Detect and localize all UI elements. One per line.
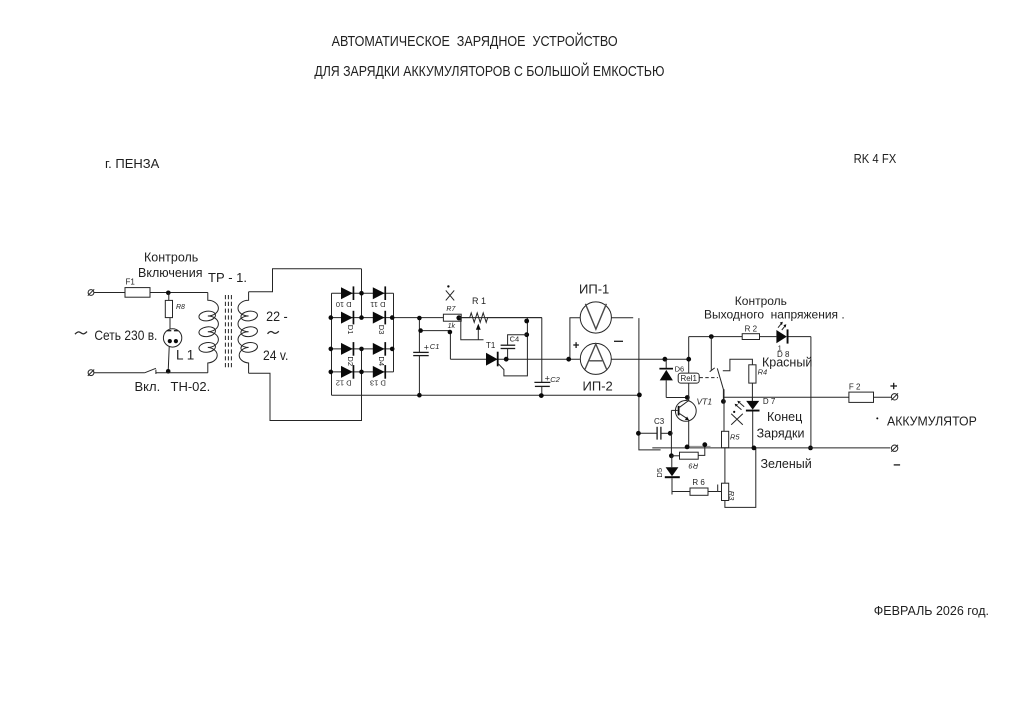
svg-text:ДЛЯ ЗАРЯДКИ АККУМУЛЯТОРОВ С БО: ДЛЯ ЗАРЯДКИ АККУМУЛЯТОРОВ С БОЛЬШОЙ ЕМКО… — [314, 62, 664, 80]
diode D11 — [373, 287, 385, 299]
relay contact NC step to R4 — [723, 359, 753, 370]
lamp cross above R7 — [446, 290, 454, 300]
svg-text:D1: D1 — [346, 325, 355, 335]
svg-text:R3: R3 — [727, 491, 736, 501]
wire V left + vertical to A rail — [570, 318, 580, 359]
node bridge row4 mid — [359, 370, 364, 375]
svg-text:R7: R7 — [446, 306, 456, 313]
capacitor C4 — [508, 335, 528, 346]
svg-text:ИП-1: ИП-1 — [579, 282, 609, 297]
node bridge row2 right / + output — [390, 315, 395, 320]
wire — [94, 292, 125, 294]
capacitor C1 — [418, 318, 420, 353]
lamp cross near D7 — [731, 414, 743, 425]
svg-text:R9: R9 — [688, 461, 698, 470]
diode D13 — [373, 366, 385, 378]
svg-text:C4: C4 — [510, 334, 520, 343]
wire output plus line — [723, 396, 849, 398]
svg-text:D 13: D 13 — [370, 379, 386, 388]
svg-text:Контроль: Контроль — [144, 251, 198, 265]
svg-text:АВТОМАТИЧЕСКОЕ ЗАРЯДНОЕ УСТР: АВТОМАТИЧЕСКОЕ ЗАРЯДНОЕ УСТРОЙСТВО — [332, 32, 618, 50]
svg-text:АККУМУЛЯТОР: АККУМУЛЯТОР — [887, 414, 977, 428]
node bridge row1 mid — [359, 291, 364, 296]
wire bridge mid vertical top — [361, 269, 363, 318]
svg-text:VT1: VT1 — [697, 397, 713, 407]
svg-text:ФЕВРАЛЬ 2026 год.: ФЕВРАЛЬ 2026 год. — [874, 604, 989, 618]
wire row4 — [332, 371, 394, 373]
transformer secondary winding — [238, 292, 249, 374]
neon lamp L1 — [163, 329, 181, 347]
svg-text:D5: D5 — [655, 468, 664, 478]
resistor R8 — [168, 293, 170, 301]
svg-text:г. ПЕНЗА: г. ПЕНЗА — [105, 156, 160, 171]
svg-text:R 6: R 6 — [692, 478, 705, 487]
fuse F2 — [849, 392, 874, 402]
~ mains symbol — [75, 332, 87, 335]
wire switch to transformer — [156, 372, 208, 374]
diode D2 — [341, 343, 353, 355]
transformer core — [224, 295, 226, 368]
wire A right rail — [611, 358, 688, 360]
node bridge row4 left — [329, 370, 334, 375]
T1 gate wire — [498, 318, 528, 376]
diode D4 — [373, 343, 385, 355]
wire row1 — [332, 292, 394, 294]
svg-text:Выходного напряжения .: Выходного напряжения . — [704, 308, 845, 322]
node R7 right — [456, 315, 461, 320]
wire C1 tap to T1 anode — [419, 331, 450, 360]
terminal battery minus — [891, 445, 897, 451]
svg-text:D 12: D 12 — [336, 379, 352, 388]
potentiometer R1 — [459, 313, 542, 322]
svg-text:Включения: Включения — [138, 266, 202, 280]
ammeter A — [580, 343, 611, 374]
wire negative bottom rail — [332, 394, 640, 396]
wire secondary bottom tap to bridge — [249, 372, 362, 421]
wire V- vertical down — [639, 318, 661, 450]
svg-text:D4: D4 — [377, 356, 386, 366]
wire right rail — [393, 293, 395, 372]
R3 wiper tick — [717, 485, 719, 492]
svg-text:T1: T1 — [486, 341, 496, 350]
wire VT1 base vertical — [670, 410, 672, 455]
svg-text:D6: D6 — [675, 365, 685, 374]
R1 wiper arrow — [461, 318, 484, 340]
relay Rel1 — [688, 337, 690, 374]
wire R2 feed line — [689, 336, 743, 338]
svg-text:Rel1: Rel1 — [680, 374, 697, 383]
node bridge row2 mid — [359, 315, 364, 320]
svg-text:24 v.: 24 v. — [263, 347, 288, 363]
resistor R9 (label rotated) — [669, 453, 674, 458]
node bridge row2 left — [329, 315, 334, 320]
wire — [150, 292, 208, 294]
node lamp/bottom wire — [166, 369, 171, 374]
potentiometer R3 — [724, 448, 726, 483]
svg-text:Контроль: Контроль — [735, 294, 787, 308]
svg-text:1k: 1k — [448, 323, 456, 330]
svg-text:F 2: F 2 — [849, 383, 861, 392]
capacitor C2 — [541, 318, 543, 383]
wire row2 / positive rail — [332, 317, 542, 319]
resistor R5 — [723, 389, 725, 431]
svg-text:L 1: L 1 — [176, 348, 194, 363]
svg-text:+: + — [545, 374, 550, 384]
wire row3 — [332, 348, 394, 350]
diode D3 — [373, 312, 385, 324]
diode D5 — [671, 456, 673, 467]
wire secondary top tap to bridge — [249, 269, 362, 292]
svg-text:+: + — [424, 343, 429, 353]
svg-text:D 11: D 11 — [370, 300, 385, 309]
LED D8 — [776, 330, 786, 343]
svg-text:RK 4 FX: RK 4 FX — [854, 151, 897, 166]
svg-text:Красный: Красный — [762, 356, 812, 370]
wire to switch — [94, 372, 145, 374]
svg-text:C2: C2 — [550, 375, 560, 384]
svg-text:Конец: Конец — [767, 410, 802, 424]
node bridge row3 mid — [359, 347, 364, 352]
svg-text:ТН-02.: ТН-02. — [171, 379, 211, 394]
svg-text:R8: R8 — [176, 304, 185, 311]
node bridge row3 right — [390, 347, 395, 352]
diode D1 — [341, 312, 353, 324]
relay dashed link — [700, 377, 719, 379]
svg-text:Зарядки: Зарядки — [757, 427, 805, 441]
wire R3 bottom loop to green rail — [725, 448, 756, 508]
svg-text:D2: D2 — [346, 356, 355, 366]
wire left rail — [331, 293, 333, 395]
svg-text:D 10: D 10 — [336, 300, 352, 309]
svg-text:F1: F1 — [126, 277, 136, 286]
svg-text:C3: C3 — [654, 417, 665, 426]
transistor VT1 — [675, 401, 696, 422]
svg-text:R 2: R 2 — [745, 324, 758, 333]
svg-text:ИП-2: ИП-2 — [583, 379, 613, 394]
wire V right — [611, 317, 633, 319]
terminal input bottom — [88, 370, 94, 376]
node bridge row3 left — [329, 347, 334, 352]
voltmeter V — [580, 302, 611, 333]
diode D6 — [663, 357, 668, 362]
svg-text:C1: C1 — [430, 342, 440, 351]
relay contact arm — [717, 368, 723, 401]
diode D10 — [341, 287, 353, 299]
wire right vertical D8 to green rail — [810, 337, 812, 448]
terminal battery plus — [891, 394, 897, 400]
svg-text:22 -: 22 - — [266, 308, 288, 324]
svg-text:D 7: D 7 — [763, 397, 776, 406]
svg-text:Сеть 230 в.: Сеть 230 в. — [94, 327, 157, 343]
+ label — [573, 344, 579, 346]
~ secondary symbol — [268, 331, 279, 334]
node T1/C4 — [504, 357, 509, 362]
resistor R2 — [742, 334, 759, 340]
LED D7 — [746, 401, 759, 410]
diode D12 — [341, 366, 353, 378]
svg-text:Вкл.: Вкл. — [135, 379, 161, 394]
switch Вкл — [145, 368, 156, 372]
wire D6 to relay bottom — [666, 397, 689, 399]
svg-text:Зеленый: Зеленый — [761, 457, 812, 471]
node F1/R8 junction — [166, 291, 171, 296]
wire bridge mid vertical bottom — [361, 349, 363, 421]
node bottom rail end — [637, 393, 642, 398]
svg-text:R5: R5 — [730, 433, 740, 442]
resistor R4 — [749, 365, 756, 383]
- label — [614, 340, 623, 342]
wire green negative rail — [652, 447, 890, 449]
terminal input top — [88, 290, 94, 296]
svg-text:ТР - 1.: ТР - 1. — [208, 270, 247, 285]
resistor R7 — [443, 314, 461, 321]
svg-text:R 1: R 1 — [472, 296, 486, 306]
resistor R6 — [672, 491, 690, 493]
svg-text:D3: D3 — [377, 325, 386, 335]
transformer TP-1 primary winding — [208, 293, 219, 373]
fuse F1 — [125, 292, 150, 294]
relay contact fixed — [710, 337, 712, 370]
